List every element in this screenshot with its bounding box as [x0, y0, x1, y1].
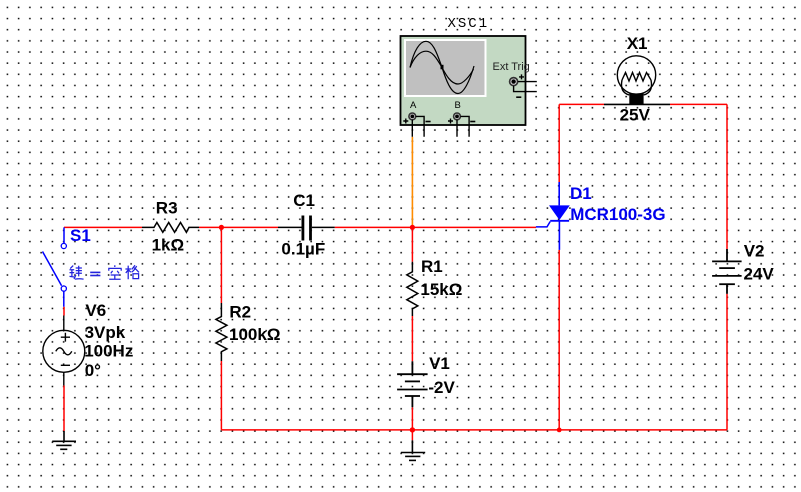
wire main horizontal red middle segment: [199, 226, 278, 228]
svg-text:B: B: [455, 100, 461, 111]
junction node center/main: [410, 225, 415, 230]
svg-text:25V: 25V: [620, 106, 651, 125]
svg-text:R3: R3: [156, 198, 178, 217]
wire R2 branch vertical red top: [220, 227, 222, 303]
wire SCR anode vertical red: [558, 104, 560, 182]
wire lamp top left red: [559, 103, 604, 105]
capacitor C1: [278, 216, 335, 241]
svg-text:MCR100-3G: MCR100-3G: [570, 205, 665, 224]
oscilloscope XSC1: [401, 36, 537, 137]
wire scope A orange: [411, 137, 413, 228]
svg-text:R2: R2: [229, 303, 251, 322]
wire bottom horizontal red: [221, 429, 727, 431]
junction node V1/bottom: [410, 427, 415, 432]
wire V6 red bottom: [63, 386, 65, 432]
svg-text:XSC1: XSC1: [448, 16, 490, 32]
kong: [108, 265, 121, 279]
battery V2: [712, 249, 742, 294]
wire center branch red V1-bottom: [411, 407, 413, 430]
svg-text:0°: 0°: [85, 361, 101, 380]
svg-text:V1: V1: [429, 354, 450, 373]
svg-text:-2V: -2V: [428, 378, 455, 397]
battery V1: [397, 361, 428, 407]
wire center branch red R1-bottom to V1: [411, 316, 413, 361]
svg-text:A: A: [410, 100, 417, 111]
wire main horizontal red left segment: [64, 226, 142, 228]
scope trace big: [410, 41, 474, 93]
svg-text:100kΩ: 100kΩ: [229, 325, 280, 344]
svg-text:S1: S1: [70, 226, 91, 245]
svg-text:C1: C1: [293, 191, 315, 210]
svg-text:D1: D1: [570, 184, 592, 203]
svg-text:Ext Trig: Ext Trig: [493, 61, 530, 73]
label key=space (CJK drawn): [70, 265, 140, 279]
wire V2 branch vertical red top: [726, 104, 728, 249]
svg-text:1kΩ: 1kΩ: [152, 235, 185, 254]
thyristor D1: [536, 182, 570, 250]
resistor R1: [407, 262, 418, 316]
wire V6 red top: [63, 307, 65, 316]
terminal B: [448, 100, 475, 137]
switch S1: [43, 227, 67, 306]
terminal Ext Trig: [493, 61, 537, 97]
svg-text:24V: 24V: [744, 264, 775, 283]
svg-text:15kΩ: 15kΩ: [420, 280, 462, 299]
resistor R3: [142, 223, 199, 233]
svg-text:V2: V2: [744, 241, 765, 260]
jian: [70, 266, 84, 280]
svg-text:100Hz: 100Hz: [84, 342, 133, 361]
source V6: [43, 316, 85, 386]
scope trace small: [410, 51, 474, 84]
svg-text:R1: R1: [421, 257, 443, 276]
svg-text:0.1µF: 0.1µF: [281, 239, 325, 258]
svg-text:X1: X1: [627, 34, 648, 53]
wire R2 branch vertical red bottom: [220, 361, 222, 430]
lamp X1: [604, 56, 670, 105]
junction node SCR/bottom: [557, 428, 562, 433]
ground below bottom wire: [401, 440, 425, 460]
junction node R2/main: [219, 225, 224, 230]
wire main horizontal red right segment: [335, 226, 536, 228]
svg-text:3Vpk: 3Vpk: [85, 323, 126, 342]
svg-text:V6: V6: [85, 301, 106, 320]
ground below V6: [52, 431, 76, 449]
wire V2 branch vertical red bottom: [726, 294, 728, 430]
wire lamp top right red: [670, 103, 727, 105]
wire SCR cathode vertical red: [558, 250, 560, 430]
wire center branch red R1-top: [411, 227, 413, 261]
resistor R2: [216, 303, 227, 361]
ge: [125, 265, 139, 279]
terminal A: [403, 100, 430, 137]
wire center ground red stub: [411, 430, 413, 440]
equals: [90, 272, 100, 277]
